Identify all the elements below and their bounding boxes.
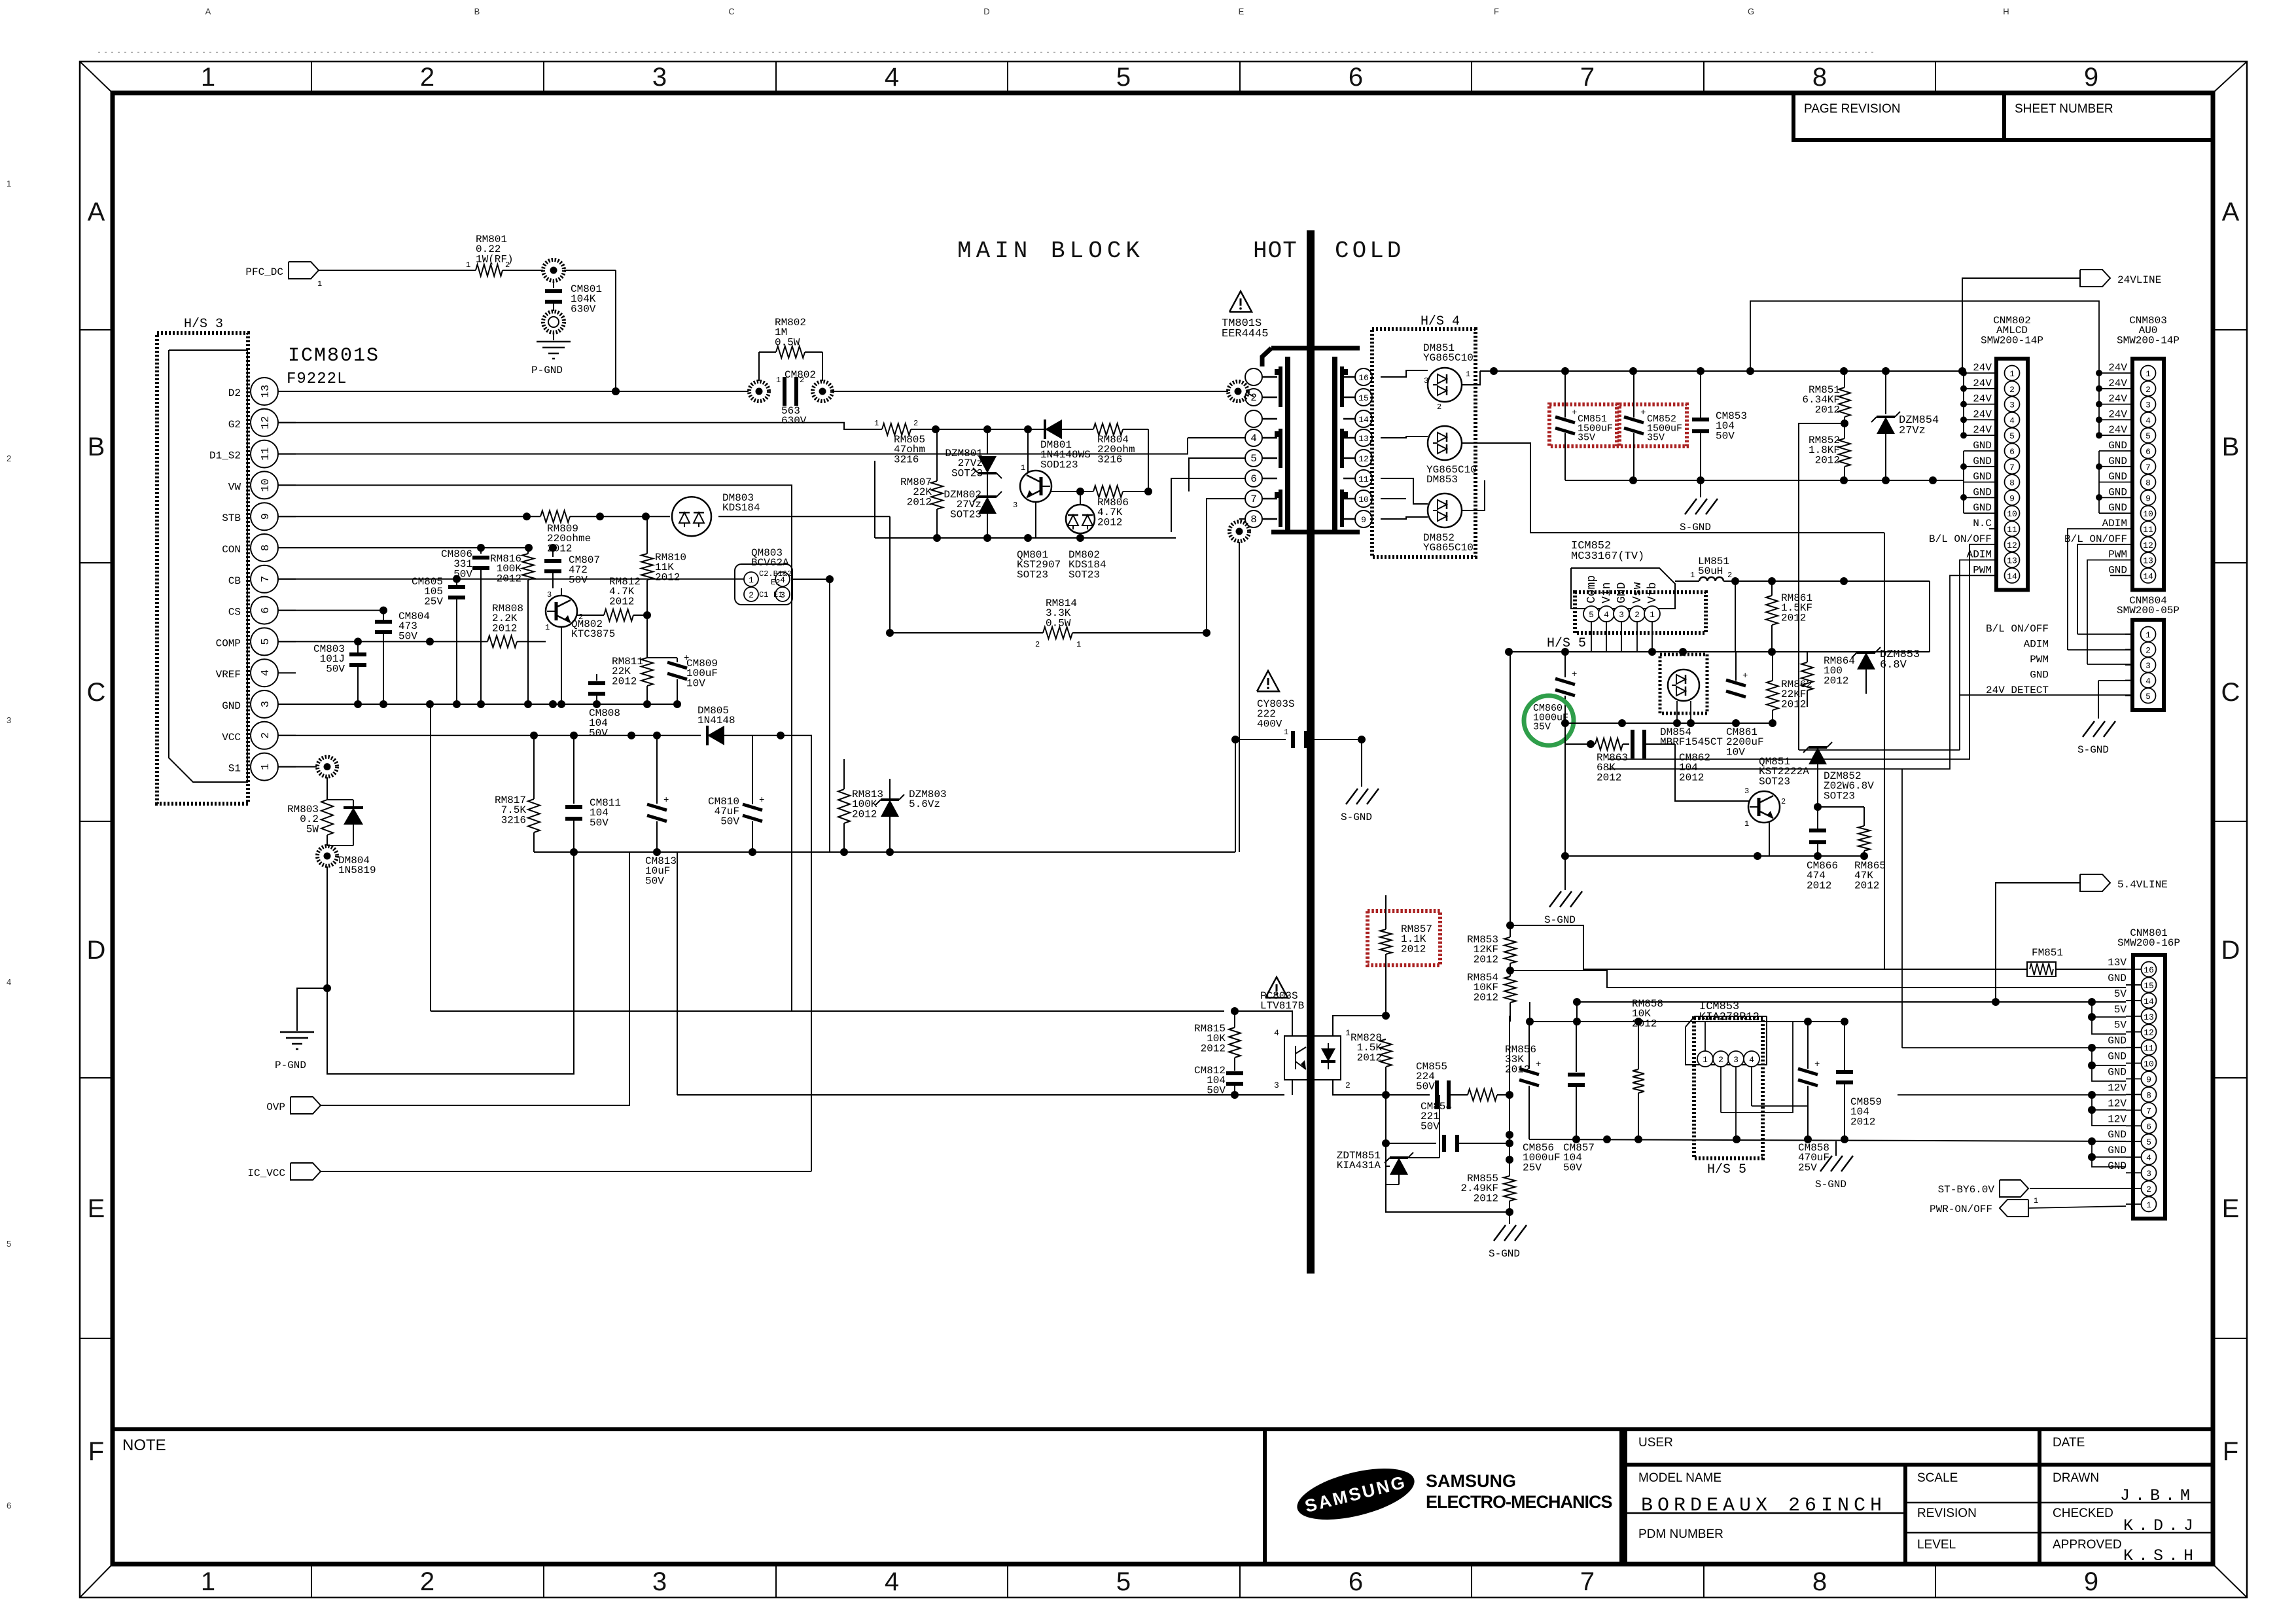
svg-text:24V: 24V <box>1973 362 1992 374</box>
svg-text:13: 13 <box>2144 1012 2154 1022</box>
svg-text:4: 4 <box>260 669 272 676</box>
svg-text:25V: 25V <box>1798 1162 1817 1173</box>
svg-text:GND: GND <box>2108 1160 2127 1172</box>
svg-text:SOT23: SOT23 <box>1824 790 1855 802</box>
svg-text:2: 2 <box>1250 392 1257 404</box>
svg-text:GND: GND <box>2108 564 2127 576</box>
svg-text:1N5819: 1N5819 <box>338 865 376 876</box>
svg-text:P-GND: P-GND <box>275 1060 306 1071</box>
svg-text:3: 3 <box>1424 376 1428 385</box>
svg-text:YG865C10: YG865C10 <box>1423 542 1474 554</box>
svg-text:2: 2 <box>2146 1185 2151 1194</box>
svg-text:6.8V: 6.8V <box>1880 659 1907 671</box>
svg-text:2: 2 <box>1727 571 1732 580</box>
svg-text:S-GND: S-GND <box>1680 522 1711 533</box>
svg-text:D: D <box>983 7 989 16</box>
svg-text:2012: 2012 <box>1201 1043 1226 1054</box>
svg-text:LTV817B: LTV817B <box>1260 1000 1304 1012</box>
svg-text:GND: GND <box>2108 440 2127 452</box>
svg-text:GND: GND <box>2108 1129 2127 1141</box>
svg-text:E: E <box>1239 7 1245 16</box>
svg-text:G: G <box>1748 7 1754 16</box>
svg-text:6: 6 <box>7 1501 11 1510</box>
svg-text:GND: GND <box>2108 486 2127 498</box>
svg-text:B/L ON/OFF: B/L ON/OFF <box>2064 533 2127 545</box>
svg-text:2012: 2012 <box>1097 516 1122 528</box>
svg-text:ADIM: ADIM <box>2024 639 2049 651</box>
svg-text:B/L ON/OFF: B/L ON/OFF <box>1929 533 1992 545</box>
svg-text:7: 7 <box>2009 463 2015 473</box>
svg-text:USER: USER <box>1638 1436 1673 1450</box>
svg-text:16: 16 <box>2144 965 2154 975</box>
svg-text:CM802: CM802 <box>785 369 816 381</box>
svg-text:11: 11 <box>1358 474 1369 484</box>
svg-text:2012: 2012 <box>907 496 932 508</box>
svg-text:13: 13 <box>2143 556 2153 566</box>
svg-text:PWM: PWM <box>2108 549 2127 561</box>
svg-text:10: 10 <box>2144 1060 2154 1069</box>
svg-text:2012: 2012 <box>1474 1192 1498 1204</box>
svg-text:GND: GND <box>1973 502 1992 514</box>
svg-text:2012: 2012 <box>1781 698 1806 710</box>
svg-text:CS: CS <box>228 607 241 618</box>
svg-text:11: 11 <box>2144 1044 2154 1054</box>
svg-text:630V: 630V <box>571 303 596 315</box>
svg-text:2012: 2012 <box>1679 772 1704 783</box>
svg-text:D: D <box>2221 936 2240 965</box>
svg-text:1: 1 <box>2146 369 2151 379</box>
svg-text:SAMSUNG: SAMSUNG <box>1426 1471 1516 1491</box>
svg-text:2: 2 <box>505 260 510 270</box>
svg-text:2: 2 <box>2146 385 2151 395</box>
svg-text:12V: 12V <box>2108 1113 2127 1125</box>
svg-text:E2: E2 <box>771 578 780 587</box>
svg-text:+: + <box>1572 408 1577 418</box>
svg-text:BCV62A: BCV62A <box>751 557 789 569</box>
svg-text:8: 8 <box>260 544 272 551</box>
svg-text:CON: CON <box>222 544 241 556</box>
svg-text:5V: 5V <box>2114 988 2127 1000</box>
svg-text:6: 6 <box>1250 473 1257 485</box>
svg-text:6: 6 <box>260 607 272 613</box>
svg-text:EER4445: EER4445 <box>1222 328 1268 340</box>
svg-text:2012: 2012 <box>612 675 637 687</box>
svg-text:SMW200-14P: SMW200-14P <box>1981 334 2043 346</box>
svg-text:5: 5 <box>2146 431 2151 441</box>
svg-text:3216: 3216 <box>894 454 919 465</box>
svg-text:F9222L: F9222L <box>287 370 347 388</box>
svg-text:10: 10 <box>2007 509 2017 519</box>
svg-text:Comp: Comp <box>1585 575 1598 603</box>
svg-text:GND: GND <box>2108 1051 2127 1063</box>
svg-text:2: 2 <box>1634 610 1640 620</box>
svg-text:1: 1 <box>776 376 781 385</box>
svg-text:2: 2 <box>1781 797 1786 806</box>
svg-text:VW: VW <box>228 481 241 493</box>
svg-text:5W: 5W <box>306 823 319 835</box>
svg-text:1: 1 <box>1284 728 1288 737</box>
svg-text:10: 10 <box>2143 509 2153 519</box>
svg-text:2012: 2012 <box>655 571 680 583</box>
svg-text:8: 8 <box>1812 1567 1827 1596</box>
svg-text:SOT23: SOT23 <box>950 508 981 520</box>
svg-text:35V: 35V <box>1578 433 1595 444</box>
svg-text:1: 1 <box>1076 640 1081 649</box>
svg-text:4: 4 <box>1749 1055 1754 1065</box>
svg-text:S-GND: S-GND <box>1489 1248 1520 1260</box>
svg-text:35V: 35V <box>1533 722 1551 733</box>
svg-text:2: 2 <box>913 419 918 428</box>
svg-text:GND: GND <box>2108 502 2127 514</box>
svg-text:2012: 2012 <box>492 622 517 634</box>
svg-text:SMW200-16P: SMW200-16P <box>2117 937 2180 949</box>
svg-text:14: 14 <box>2007 571 2017 581</box>
svg-text:25V: 25V <box>424 596 443 607</box>
svg-text:5: 5 <box>1116 1567 1131 1596</box>
svg-text:H/S 3: H/S 3 <box>184 317 223 332</box>
svg-text:1: 1 <box>1703 1055 1708 1065</box>
svg-text:H/S 4: H/S 4 <box>1421 314 1460 329</box>
svg-text:8: 8 <box>1812 63 1827 92</box>
svg-text:2: 2 <box>7 454 11 463</box>
svg-text:F: F <box>2223 1437 2238 1466</box>
svg-text:4: 4 <box>2146 677 2151 687</box>
svg-text:50V: 50V <box>590 817 609 829</box>
svg-text:3: 3 <box>7 715 11 725</box>
svg-text:GND: GND <box>2108 972 2127 984</box>
svg-text:4: 4 <box>885 63 899 92</box>
svg-text:E1: E1 <box>773 590 783 599</box>
svg-text:12V: 12V <box>2108 1097 2127 1109</box>
svg-text:MBRF1545CT: MBRF1545CT <box>1660 736 1723 748</box>
svg-text:B: B <box>474 7 480 16</box>
svg-text:50V: 50V <box>326 663 345 675</box>
svg-text:11: 11 <box>2007 525 2017 535</box>
svg-text:SOT23: SOT23 <box>1759 776 1790 787</box>
svg-text:H: H <box>2003 7 2009 16</box>
svg-text:3: 3 <box>1619 610 1624 620</box>
svg-text:27Vz: 27Vz <box>1899 425 1926 437</box>
svg-text:2012: 2012 <box>1815 404 1840 416</box>
svg-text:C: C <box>87 678 106 707</box>
svg-text:+: + <box>663 795 669 806</box>
svg-text:GND: GND <box>1973 486 1992 498</box>
svg-text:DM853: DM853 <box>1426 474 1458 486</box>
svg-text:4: 4 <box>1250 433 1257 444</box>
svg-text:14: 14 <box>2144 997 2154 1007</box>
svg-text:50V: 50V <box>1421 1120 1439 1132</box>
svg-text:7: 7 <box>1580 63 1595 92</box>
svg-text:2012: 2012 <box>1850 1116 1875 1128</box>
svg-text:13: 13 <box>1358 434 1369 444</box>
svg-text:1: 1 <box>874 419 879 428</box>
svg-text:COMP: COMP <box>216 637 241 649</box>
svg-text:2012: 2012 <box>852 808 877 820</box>
svg-text:1: 1 <box>466 260 470 270</box>
svg-text:3: 3 <box>1744 787 1749 796</box>
svg-text:A: A <box>205 7 211 16</box>
svg-text:DRAWN: DRAWN <box>2053 1471 2099 1485</box>
svg-text:5.6Vz: 5.6Vz <box>909 798 940 810</box>
svg-text:VREF: VREF <box>216 669 241 681</box>
svg-text:NOTE: NOTE <box>122 1436 166 1454</box>
svg-text:OVP: OVP <box>266 1101 285 1113</box>
svg-text:2: 2 <box>1309 728 1313 737</box>
svg-text:+: + <box>1814 1060 1820 1070</box>
svg-text:14: 14 <box>1358 415 1369 425</box>
svg-text:2012: 2012 <box>1597 772 1621 783</box>
svg-text:8: 8 <box>2009 478 2015 488</box>
svg-text:5V: 5V <box>2114 1020 2127 1031</box>
svg-text:2012: 2012 <box>1824 675 1848 687</box>
svg-text:10V: 10V <box>1726 746 1745 758</box>
svg-text:11: 11 <box>2143 525 2153 535</box>
svg-text:2: 2 <box>749 590 754 600</box>
svg-text:H/S 5: H/S 5 <box>1707 1162 1746 1177</box>
svg-text:PFC_DC: PFC_DC <box>245 266 283 278</box>
svg-text:1: 1 <box>2009 369 2015 379</box>
svg-text:5: 5 <box>2146 1137 2151 1147</box>
svg-text:0.5W: 0.5W <box>775 336 800 348</box>
svg-text:1: 1 <box>260 763 272 770</box>
svg-text:SOT23: SOT23 <box>1069 569 1100 580</box>
svg-text:PWM: PWM <box>1973 564 1992 576</box>
svg-text:FM851: FM851 <box>2032 947 2063 959</box>
svg-text:3: 3 <box>547 590 552 599</box>
svg-text:GND: GND <box>2108 471 2127 483</box>
svg-text:1: 1 <box>1466 370 1470 379</box>
svg-text:630V: 630V <box>781 415 807 427</box>
svg-text:3: 3 <box>652 63 667 92</box>
svg-text:3: 3 <box>652 1567 667 1596</box>
svg-text:ADIM: ADIM <box>1967 549 1992 561</box>
svg-text:A: A <box>88 198 105 226</box>
svg-text:KIA431A: KIA431A <box>1337 1160 1381 1171</box>
svg-text:7: 7 <box>1580 1567 1595 1596</box>
svg-text:GND: GND <box>222 700 241 712</box>
svg-text:13: 13 <box>260 385 272 398</box>
svg-text:J.B.M: J.B.M <box>2120 1486 2195 1505</box>
svg-text:13: 13 <box>2007 556 2017 566</box>
svg-text:5: 5 <box>1589 610 1594 620</box>
svg-text:2: 2 <box>420 1567 434 1596</box>
svg-text:HOT: HOT <box>1253 238 1298 264</box>
svg-text:1: 1 <box>1744 819 1749 829</box>
svg-text:12: 12 <box>2144 1028 2154 1038</box>
svg-text:50V: 50V <box>1563 1162 1582 1173</box>
svg-text:1: 1 <box>1021 463 1025 473</box>
svg-text:2012: 2012 <box>1474 991 1498 1003</box>
svg-text:F: F <box>88 1437 104 1466</box>
svg-text:15: 15 <box>1358 393 1369 403</box>
svg-text:9: 9 <box>2009 493 2015 503</box>
svg-text:2: 2 <box>260 732 272 739</box>
svg-text:+: + <box>1640 408 1646 418</box>
svg-text:5: 5 <box>1116 63 1131 92</box>
svg-text:B/L ON/OFF: B/L ON/OFF <box>1986 623 2049 635</box>
svg-text:5: 5 <box>260 638 272 645</box>
svg-text:2012: 2012 <box>1632 1018 1657 1029</box>
svg-text:14: 14 <box>2143 571 2153 581</box>
svg-text:CHECKED: CHECKED <box>2053 1507 2113 1520</box>
svg-text:1: 1 <box>2146 630 2151 640</box>
svg-text:13V: 13V <box>2108 957 2127 969</box>
svg-text:2: 2 <box>1718 1055 1723 1065</box>
svg-text:2012: 2012 <box>1474 954 1498 965</box>
svg-text:PWM: PWM <box>2030 654 2049 666</box>
svg-text:1: 1 <box>749 575 754 585</box>
svg-text:0.5W: 0.5W <box>1046 617 1071 629</box>
svg-text:4: 4 <box>2146 1153 2151 1163</box>
svg-text:PDM NUMBER: PDM NUMBER <box>1638 1527 1723 1541</box>
svg-text:SOT23: SOT23 <box>951 467 983 479</box>
svg-text:24V: 24V <box>2108 424 2127 436</box>
svg-text:D2: D2 <box>228 387 241 399</box>
svg-text:GND: GND <box>1973 471 1992 483</box>
svg-text:4: 4 <box>1604 610 1609 620</box>
svg-text:+: + <box>1572 669 1577 680</box>
svg-text:DATE: DATE <box>2053 1436 2085 1450</box>
svg-text:6: 6 <box>2146 1122 2151 1132</box>
svg-text:S-GND: S-GND <box>2077 744 2109 756</box>
svg-text:3: 3 <box>260 701 272 707</box>
svg-text:24V: 24V <box>1973 393 1992 405</box>
svg-text:24V: 24V <box>2108 408 2127 420</box>
svg-text:2: 2 <box>2146 646 2151 656</box>
svg-text:50V: 50V <box>398 630 417 642</box>
svg-text:3: 3 <box>1733 1055 1739 1065</box>
svg-text:1: 1 <box>1345 1028 1351 1038</box>
svg-text:5.4VLINE: 5.4VLINE <box>2117 879 2168 891</box>
svg-text:1: 1 <box>545 623 550 632</box>
svg-text:2: 2 <box>1345 1080 1351 1090</box>
svg-text:2012: 2012 <box>1357 1052 1382 1063</box>
svg-text:C: C <box>728 7 734 16</box>
svg-text:STB: STB <box>222 512 241 524</box>
svg-text:2: 2 <box>1437 402 1441 412</box>
svg-text:GND: GND <box>1973 440 1992 452</box>
svg-text:12V: 12V <box>2108 1082 2127 1094</box>
svg-text:50V: 50V <box>589 727 608 739</box>
svg-text:F: F <box>1494 7 1499 16</box>
svg-text:8: 8 <box>2146 1090 2151 1100</box>
svg-text:4: 4 <box>2146 416 2151 425</box>
svg-text:+: + <box>1536 1060 1541 1070</box>
svg-text:ELECTRO-MECHANICS: ELECTRO-MECHANICS <box>1426 1492 1612 1512</box>
svg-text:1: 1 <box>1650 610 1655 620</box>
svg-text:S-GND: S-GND <box>1815 1179 1846 1190</box>
svg-text:C: C <box>2221 678 2240 707</box>
svg-text:12: 12 <box>2143 541 2153 550</box>
svg-text:24V: 24V <box>2108 378 2127 389</box>
svg-text:SOT23: SOT23 <box>1017 569 1048 580</box>
svg-text:6: 6 <box>2146 447 2151 457</box>
svg-text:D1_S2: D1_S2 <box>209 450 241 462</box>
svg-text:SOD123: SOD123 <box>1040 459 1078 471</box>
svg-text:P-GND: P-GND <box>531 365 563 376</box>
svg-text:GND: GND <box>2030 669 2049 681</box>
svg-text:PAGE REVISION: PAGE REVISION <box>1804 102 1900 116</box>
svg-text:7: 7 <box>2146 463 2151 473</box>
svg-text:15: 15 <box>2144 981 2154 991</box>
svg-text:2012: 2012 <box>1401 943 1426 955</box>
svg-text:2: 2 <box>2009 385 2015 395</box>
svg-text:+: + <box>759 795 764 806</box>
svg-text:3: 3 <box>1274 1080 1279 1090</box>
svg-text:4: 4 <box>885 1567 899 1596</box>
svg-text:MODEL NAME: MODEL NAME <box>1638 1471 1722 1485</box>
svg-text:7: 7 <box>2146 1106 2151 1116</box>
svg-text:1N4148: 1N4148 <box>698 715 735 726</box>
svg-text:SCALE: SCALE <box>1917 1471 1958 1485</box>
svg-text:GND: GND <box>2108 1067 2127 1079</box>
svg-text:24VLINE: 24VLINE <box>2117 274 2161 286</box>
svg-text:6: 6 <box>1349 1567 1363 1596</box>
svg-text:400V: 400V <box>1257 718 1282 730</box>
svg-text:MC33167(TV): MC33167(TV) <box>1571 550 1644 563</box>
svg-text:E: E <box>2222 1194 2240 1223</box>
svg-text:3: 3 <box>2146 661 2151 671</box>
svg-text:10: 10 <box>260 478 272 491</box>
svg-text:5: 5 <box>2146 692 2151 702</box>
svg-text:SHEET NUMBER: SHEET NUMBER <box>2015 102 2113 116</box>
svg-text:9: 9 <box>2084 1567 2098 1596</box>
svg-text:3: 3 <box>2009 401 2015 410</box>
svg-text:VCC: VCC <box>222 732 241 743</box>
svg-text:50V: 50V <box>720 815 739 827</box>
svg-text:50V: 50V <box>645 875 664 887</box>
svg-text:9: 9 <box>260 513 272 520</box>
svg-text:CB: CB <box>228 575 241 587</box>
svg-text:3: 3 <box>2146 1169 2151 1179</box>
svg-text:4: 4 <box>7 977 11 987</box>
svg-text:50V: 50V <box>1416 1080 1435 1092</box>
svg-text:5: 5 <box>7 1239 11 1249</box>
svg-text:A: A <box>2222 198 2240 226</box>
svg-text:KDS184: KDS184 <box>722 502 760 514</box>
svg-text:9: 9 <box>2146 1075 2151 1085</box>
svg-text:50V: 50V <box>1716 430 1735 442</box>
svg-text:S1: S1 <box>228 763 241 775</box>
svg-text:1: 1 <box>201 1567 215 1596</box>
svg-text:24V: 24V <box>1973 424 1992 436</box>
svg-text:K.D.J: K.D.J <box>2123 1516 2199 1535</box>
svg-text:24V: 24V <box>1973 408 1992 420</box>
svg-text:+: + <box>1742 671 1748 681</box>
svg-text:6: 6 <box>2009 447 2015 457</box>
svg-text:3216: 3216 <box>1097 454 1122 465</box>
svg-text:9: 9 <box>2084 63 2098 92</box>
svg-text:IC_VCC: IC_VCC <box>247 1168 285 1179</box>
svg-text:GND: GND <box>2108 1035 2127 1047</box>
svg-text:S-GND: S-GND <box>1544 914 1576 926</box>
svg-text:N.C: N.C <box>1973 518 1992 529</box>
svg-text:BORDEAUX 26INCH: BORDEAUX 26INCH <box>1641 1495 1886 1517</box>
svg-text:1: 1 <box>7 179 11 188</box>
svg-text:YG865C10: YG865C10 <box>1423 352 1474 364</box>
svg-text:2: 2 <box>420 63 434 92</box>
svg-text:12: 12 <box>1358 454 1369 464</box>
svg-text:2: 2 <box>1035 640 1040 649</box>
svg-text:4: 4 <box>1274 1028 1279 1038</box>
svg-text:24V: 24V <box>2108 362 2127 374</box>
svg-text:MAIN BLOCK: MAIN BLOCK <box>957 238 1144 264</box>
svg-text:C1: C1 <box>759 590 768 599</box>
svg-text:COLD: COLD <box>1335 238 1404 264</box>
svg-text:2012: 2012 <box>609 596 634 607</box>
svg-text:ICM801S: ICM801S <box>288 345 380 367</box>
svg-text:3216: 3216 <box>501 814 526 826</box>
